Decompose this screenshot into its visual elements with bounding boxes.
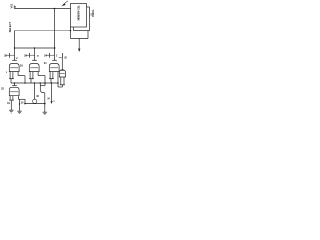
svg-text:SELECT: SELECT [8,21,12,32]
svg-text:MEMORY CEL: MEMORY CEL [77,5,81,21]
